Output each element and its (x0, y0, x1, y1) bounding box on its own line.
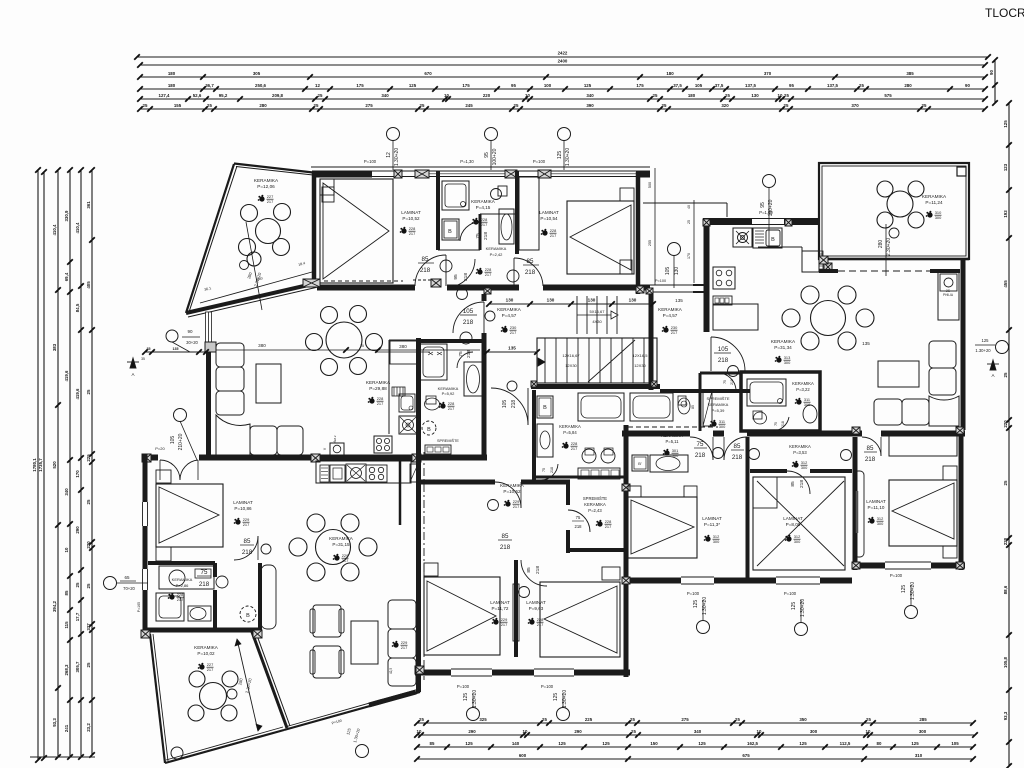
svg-text:KERAMIKA: KERAMIKA (172, 577, 193, 582)
apt-D window marker (905, 606, 918, 619)
svg-text:130: 130 (674, 267, 680, 276)
junction hatch blocks (636, 286, 644, 293)
svg-text:P=31,15: P=31,15 (332, 542, 350, 547)
svg-text:KERAMIKA: KERAMIKA (254, 178, 279, 183)
svg-text:1.30+20: 1.30+20 (472, 690, 478, 708)
apt-A bed (156, 484, 223, 547)
svg-text:300: 300 (719, 424, 726, 429)
upper bath interior walls (436, 171, 440, 250)
living2 chairs (801, 286, 819, 304)
svg-text:25: 25 (725, 93, 730, 98)
svg-text:95: 95 (484, 152, 490, 158)
svg-text:125: 125 (465, 741, 473, 746)
bath-2 sinks (582, 449, 596, 463)
svg-text:275: 275 (681, 717, 689, 722)
svg-text:290: 290 (468, 729, 476, 734)
shower1 (442, 181, 469, 210)
apt-A shower (156, 593, 184, 621)
svg-text:1.30+20: 1.30+20 (975, 348, 991, 353)
svg-text:500: 500 (648, 182, 652, 188)
svg-text:218: 218 (865, 456, 876, 463)
svg-text:218: 218 (525, 269, 536, 276)
svg-text:100+20: 100+20 (492, 148, 498, 165)
left apartment outer wall (143, 454, 148, 502)
apt-C bottom windows (681, 576, 714, 578)
svg-text:162,5: 162,5 (747, 741, 759, 746)
svg-text:P=100: P=100 (364, 159, 377, 164)
svg-text:SPREMIŠTE: SPREMIŠTE (583, 496, 607, 501)
svg-text:340: 340 (586, 93, 594, 98)
svg-text:1735,7: 1735,7 (38, 458, 43, 472)
sliding door dashed line (838, 270, 930, 272)
svg-text:675: 675 (742, 753, 750, 758)
bath-D sink (803, 405, 817, 423)
kitchen2 top wall (703, 218, 752, 225)
dim line left of living1 (145, 351, 206, 353)
apt-B interior door1 (495, 482, 521, 508)
svg-text:B: B (543, 405, 547, 411)
apt-A bath top wall (148, 561, 215, 565)
svg-text:250,6: 250,6 (255, 83, 267, 88)
sliding pocket door D (854, 471, 864, 557)
svg-text:2400: 2400 (558, 59, 568, 64)
bath-D shower (747, 379, 786, 406)
svg-text:137,5: 137,5 (827, 83, 839, 88)
apt-A bedroom double door (160, 460, 180, 480)
apt-B bath top wall (421, 339, 484, 343)
svg-text:75: 75 (723, 380, 727, 384)
svg-text:180: 180 (688, 93, 696, 98)
svg-text:217: 217 (207, 667, 214, 672)
svg-text:P=12,06: P=12,06 (257, 184, 275, 189)
svg-text:125: 125 (799, 741, 807, 746)
svg-text:105: 105 (463, 308, 474, 315)
bath-C dashed (628, 426, 718, 428)
door bedroom2 arc (514, 258, 543, 286)
svg-text:280: 280 (904, 83, 912, 88)
apartment C interior wall (746, 437, 750, 582)
svg-text:217: 217 (501, 622, 508, 627)
kitchen2 stove (713, 267, 735, 289)
svg-text:380: 380 (258, 343, 266, 348)
svg-text:218: 218 (466, 350, 472, 358)
terrace3 bottom slanted wall (165, 730, 284, 763)
radiator on divider (513, 584, 519, 641)
svg-text:P=11,10: P=11,10 (868, 505, 885, 510)
svg-text:1.30+20: 1.30+20 (565, 148, 571, 166)
apt-B window markers (467, 708, 480, 721)
apt-A bath right wall (213, 563, 217, 577)
svg-text:25: 25 (420, 103, 425, 108)
svg-text:130: 130 (547, 298, 555, 303)
svg-text:ŠM.2: ŠM.2 (332, 435, 337, 442)
svg-text:KERAMIKA: KERAMIKA (922, 194, 947, 199)
kitchen1 vent lines (392, 387, 405, 396)
svg-text:255: 255 (648, 240, 652, 246)
svg-text:218: 218 (799, 480, 805, 488)
marker 65/70+20 (104, 577, 117, 590)
svg-text:137,5: 137,5 (745, 83, 757, 88)
apt-A bath door circle (216, 576, 228, 588)
kitchen-A slanted wall (252, 632, 287, 728)
living2 right outer wall (961, 258, 966, 430)
top wall solid segment a (312, 171, 372, 178)
bathtub oval1 (499, 209, 514, 244)
svg-text:12: 12 (386, 152, 392, 158)
wall block at door (431, 279, 441, 287)
svg-text:25: 25 (86, 389, 91, 394)
svg-text:SPREMIŠTE: SPREMIŠTE (437, 438, 459, 443)
living1 left wall (206, 313, 211, 458)
svg-text:P=9,63: P=9,63 (529, 606, 544, 611)
svg-text:125: 125 (693, 600, 699, 609)
marker 105/130 (668, 243, 681, 256)
svg-text:170: 170 (75, 470, 80, 478)
svg-text:10: 10 (444, 93, 449, 98)
marker 125 right (996, 341, 1009, 354)
terrace3 chairs (189, 671, 205, 687)
svg-text:KERAMIKA: KERAMIKA (194, 645, 219, 650)
svg-text:KERAMIKA: KERAMIKA (708, 402, 729, 407)
apt-C bed1 (628, 497, 697, 558)
svg-text:105: 105 (502, 400, 508, 409)
svg-text:175: 175 (462, 83, 470, 88)
terrace1 left slanted wall (186, 164, 234, 313)
left wall window a (142, 502, 144, 526)
svg-text:380: 380 (399, 344, 407, 349)
top dimension chain row6 (140, 108, 985, 110)
bath-D door (772, 417, 789, 431)
svg-text:10: 10 (525, 93, 530, 98)
svg-text:12X30: 12X30 (565, 363, 577, 368)
svg-text:2422: 2422 (558, 51, 568, 56)
svg-text:100: 100 (544, 83, 552, 88)
svg-text:25: 25 (86, 662, 91, 667)
corridor dashed door line (630, 433, 690, 435)
svg-text:300: 300 (810, 729, 818, 734)
svg-text:217: 217 (605, 524, 612, 529)
apt-A boiler (240, 606, 256, 622)
stairhall left wall (482, 294, 487, 301)
svg-text:125: 125 (911, 741, 919, 746)
apt-C bedroom2 wall (750, 469, 787, 473)
svg-text:70+20: 70+20 (123, 586, 135, 591)
svg-text:25: 25 (1003, 480, 1008, 485)
svg-text:B': B' (638, 461, 642, 466)
svg-text:300: 300 (804, 402, 811, 407)
terrace2 chairs (877, 181, 893, 197)
bath-2 door (541, 464, 558, 480)
interior dim near bedroom2 (654, 168, 656, 285)
stairhall door knob circle (460, 332, 472, 344)
living2 sofa (929, 341, 956, 368)
svg-text:225: 225 (585, 717, 593, 722)
svg-text:125: 125 (982, 338, 990, 343)
svg-text:KERAMIKA: KERAMIKA (658, 307, 683, 312)
svg-text:1.30+20: 1.30+20 (702, 597, 708, 615)
svg-text:217: 217 (510, 330, 517, 335)
svg-text:KERAMIKA: KERAMIKA (789, 444, 811, 449)
section arrow A right (990, 360, 996, 370)
apt-B shower tray (420, 344, 447, 380)
bedroom2 right wall (636, 172, 641, 294)
svg-text:P=11,3*: P=11,3* (704, 522, 720, 527)
svg-text:85: 85 (430, 741, 435, 746)
svg-text:25: 25 (514, 103, 519, 108)
svg-text:300: 300 (794, 539, 801, 544)
svg-text:105: 105 (695, 83, 703, 88)
stairs main block (537, 338, 657, 383)
entry door leaf A (261, 565, 276, 629)
svg-text:2.30+20: 2.30+20 (886, 238, 892, 256)
svg-text:383: 383 (52, 343, 57, 351)
living-A corner sofa (388, 600, 416, 629)
corridor bottom wall right wing (622, 431, 690, 437)
terrace2 corner block (957, 167, 966, 176)
svg-text:75: 75 (697, 441, 704, 448)
terrace3 slant dim (237, 639, 258, 731)
bottom dimension chain row1 (417, 722, 973, 724)
main mid wall (142, 455, 158, 461)
svg-text:KERAMIKA: KERAMIKA (486, 246, 507, 251)
bath-2 boiler box (537, 396, 553, 418)
svg-text:410,4: 410,4 (75, 222, 80, 234)
bottom dimension chain row3 (417, 746, 973, 748)
svg-text:140: 140 (512, 741, 520, 746)
svg-text:350: 350 (799, 717, 807, 722)
bath-2 shower col (537, 424, 553, 457)
svg-text:37,5: 37,5 (715, 83, 724, 88)
svg-text:P=10,52: P=10,52 (503, 489, 521, 494)
svg-text:410,4: 410,4 (52, 224, 57, 236)
svg-text:P=5,11: P=5,11 (665, 439, 679, 444)
bath-C bathtub (630, 393, 673, 421)
svg-text:175: 175 (636, 83, 644, 88)
right top small dims (994, 60, 996, 103)
svg-text:75: 75 (542, 468, 546, 472)
apt-C bed2 (753, 477, 845, 570)
svg-text:25: 25 (631, 729, 636, 734)
svg-text:390: 390 (586, 103, 594, 108)
top dimension chain row3 (140, 76, 985, 78)
living2 terrace wall with sliding door (819, 258, 969, 261)
apt-B interior wall (420, 480, 495, 485)
svg-text:P=3,53: P=3,53 (793, 450, 807, 455)
kitchen2 dishwasher (713, 296, 732, 305)
kitchen1 hob unit (399, 416, 417, 434)
svg-text:75: 75 (201, 569, 208, 576)
svg-text:217: 217 (671, 330, 678, 335)
svg-text:KERAMIKA: KERAMIKA (661, 433, 683, 438)
terrace2 top marker (771, 179, 773, 181)
svg-text:84,5: 84,5 (75, 303, 80, 312)
svg-text:P=5,92: P=5,92 (442, 391, 456, 396)
svg-text:218: 218 (732, 454, 743, 461)
svg-text:25: 25 (207, 103, 212, 108)
svg-text:85: 85 (244, 538, 251, 545)
svg-text:217: 217 (377, 401, 384, 406)
kitchen2 window P=1,30 (752, 218, 784, 220)
svg-text:155: 155 (174, 103, 182, 108)
bed1 (320, 179, 393, 283)
svg-text:217: 217 (401, 645, 408, 650)
bed1 dashed balcony line (324, 280, 403, 282)
apt-A dining chairs (307, 514, 325, 532)
apt-B bottom windows (451, 668, 492, 670)
svg-text:69,4: 69,4 (64, 272, 69, 281)
svg-text:KERAMIKA: KERAMIKA (329, 536, 354, 541)
right dimension chain (1008, 103, 1010, 766)
svg-text:300: 300 (935, 215, 942, 220)
bath-2 bottom wall (534, 476, 628, 479)
kitchen1 sink square (399, 394, 415, 412)
svg-text:P=10,02: P=10,02 (197, 651, 215, 656)
svg-text:218: 218 (575, 524, 583, 529)
svg-text:90: 90 (187, 329, 193, 334)
corridor dim line2 (487, 351, 537, 353)
bottom dimension chain row4 (417, 758, 973, 760)
corridor dim line (489, 303, 653, 305)
svg-text:25: 25 (784, 93, 789, 98)
svg-text:180: 180 (666, 71, 674, 76)
apt-B toilet (426, 396, 436, 404)
svg-text:P=10,86: P=10,86 (234, 506, 252, 511)
svg-text:P=100: P=100 (784, 591, 797, 596)
svg-text:1.30+20: 1.30+20 (562, 690, 568, 708)
svg-text:670: 670 (424, 71, 432, 76)
svg-text:25: 25 (419, 717, 424, 722)
svg-text:305,7: 305,7 (75, 661, 80, 673)
svg-text:25: 25 (143, 103, 148, 108)
svg-text:36,7: 36,7 (205, 83, 214, 88)
bedroom2 closet (519, 177, 539, 250)
apt-D bottom window (885, 561, 931, 563)
svg-text:P=3,22: P=3,22 (796, 387, 810, 392)
svg-text:220: 220 (483, 93, 491, 98)
svg-text:KERAMIKA: KERAMIKA (584, 502, 606, 507)
apt-C bottom wall (622, 578, 681, 584)
svg-text:KERAMIKA: KERAMIKA (559, 424, 581, 429)
svg-text:25: 25 (630, 717, 635, 722)
svg-text:A: A (991, 373, 994, 378)
svg-text:85: 85 (64, 590, 69, 595)
svg-text:LAMINAT: LAMINAT (526, 600, 546, 605)
svg-text:P=11,24: P=11,24 (925, 200, 943, 205)
top outer wall face line (311, 166, 650, 168)
terrace3 table (200, 683, 227, 710)
svg-text:127,4: 127,4 (159, 93, 171, 98)
apartment D right wall (959, 427, 964, 570)
svg-text:85: 85 (527, 258, 534, 265)
svg-text:30+20: 30+20 (186, 340, 198, 345)
svg-text:LAMINAT: LAMINAT (490, 600, 510, 605)
svg-text:135: 135 (508, 346, 516, 351)
svg-text:175: 175 (356, 83, 364, 88)
svg-text:85: 85 (502, 533, 509, 540)
svg-text:LAMINAT: LAMINAT (401, 210, 421, 215)
svg-text:10: 10 (757, 729, 762, 734)
svg-text:115: 115 (64, 621, 69, 629)
svg-text:P=100: P=100 (533, 159, 546, 164)
svg-text:125: 125 (791, 602, 797, 611)
terrace3 corner circle (171, 747, 183, 759)
kitchen2 corner block (824, 263, 832, 271)
svg-text:135: 135 (862, 341, 870, 346)
svg-text:385: 385 (906, 71, 914, 76)
marker 105/210+20 (174, 409, 187, 422)
svg-text:P=2,43: P=2,43 (588, 508, 602, 513)
left chain bottom ticks (30, 756, 95, 758)
kitchen-A counter (316, 461, 411, 483)
svg-text:25: 25 (1003, 372, 1008, 377)
corridor top wall with openings (317, 285, 415, 291)
top wall pier2 (415, 170, 429, 178)
svg-text:KERAMIKA: KERAMIKA (366, 380, 391, 385)
svg-text:170: 170 (687, 253, 691, 259)
apartment C/D divider wall (853, 437, 858, 570)
svg-text:25: 25 (75, 582, 80, 587)
svg-text:218: 218 (199, 581, 210, 588)
svg-text:220: 220 (1003, 420, 1008, 428)
svg-text:130: 130 (506, 298, 514, 303)
svg-text:217: 217 (177, 597, 184, 602)
svg-text:280: 280 (878, 240, 884, 249)
living1 dining table (326, 322, 362, 358)
svg-text:218: 218 (781, 421, 785, 427)
svg-text:217: 217 (448, 406, 455, 411)
svg-text:217: 217 (267, 199, 274, 204)
svg-text:P=10,52: P=10,52 (402, 216, 420, 221)
svg-text:P=8,00: P=8,00 (786, 522, 801, 527)
svg-text:310: 310 (915, 753, 923, 758)
svg-text:305: 305 (253, 71, 261, 76)
svg-text:A: A (131, 372, 134, 377)
svg-text:370: 370 (851, 103, 859, 108)
living2 dining table (811, 301, 846, 336)
svg-text:25: 25 (542, 717, 547, 722)
svg-text:217: 217 (550, 233, 557, 238)
svg-text:P=1,30: P=1,30 (460, 159, 474, 164)
svg-text:25: 25 (735, 717, 740, 722)
svg-text:125: 125 (463, 693, 469, 702)
svg-text:218: 218 (550, 467, 554, 473)
svg-text:10: 10 (523, 729, 528, 734)
apt-B bed2 (540, 582, 620, 657)
svg-text:40: 40 (687, 205, 691, 209)
kitchen2 left wall (704, 218, 710, 332)
svg-text:P=5,39: P=5,39 (712, 408, 726, 413)
apt-A dining table (316, 530, 351, 565)
svg-text:100+20: 100+20 (768, 199, 774, 216)
terrace1 bottom slanted wall (186, 283, 317, 313)
svg-text:P=2,86: P=2,86 (176, 583, 190, 588)
top wall pier4 (538, 170, 551, 178)
svg-text:23,2: 23,2 (86, 723, 91, 732)
svg-text:25: 25 (86, 499, 91, 504)
svg-text:1.30+20: 1.30+20 (910, 582, 916, 600)
slant window block (369, 692, 416, 705)
wall block slant junction (303, 279, 320, 287)
apt-A bath bottom wall (145, 628, 258, 633)
svg-text:P=20: P=20 (155, 446, 165, 451)
terrace2 rotated dim (885, 224, 887, 276)
svg-text:218: 218 (695, 452, 706, 459)
svg-text:370: 370 (764, 71, 772, 76)
top wall pier1 (394, 170, 402, 178)
living2 coffee table (878, 361, 919, 387)
svg-text:93,3: 93,3 (52, 718, 57, 727)
bath-2 left wall (532, 390, 536, 480)
